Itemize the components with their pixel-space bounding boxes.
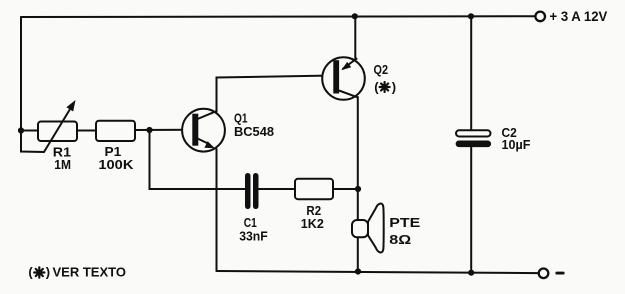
resistor R2 (box) [295,179,333,199]
terminal +V [535,12,545,22]
wire C2 branch bottom [470,147,472,272]
svg-text:+ 3 A 12V: + 3 A 12V [550,9,609,24]
transistor Q1 BC548 (NPN) [182,109,225,152]
wire speaker to bottom rail [357,237,359,272]
wire feedback node to C1 [150,130,246,189]
junction node speaker / bottom rail [355,268,361,274]
svg-text:1K2: 1K2 [301,216,324,231]
wire P1 to Q1 base [135,129,193,131]
wire R2 to Q2 collector [333,188,358,190]
wire R1 to P1 [77,130,96,132]
junction node C2 / bottom rail [468,270,474,276]
potentiometer P1 (box) [96,121,135,141]
wire Q1 collector to Q2 base [217,76,334,112]
svg-text:VER TEXTO: VER TEXTO [53,264,127,279]
svg-text:PTE: PTE [389,215,420,230]
svg-text:Q2: Q2 [374,62,389,77]
junction node P1 / Q1 base / feedback [146,127,152,133]
note (*) [374,79,396,94]
svg-text:(: ( [28,264,33,279]
wire Q2 collector down [357,97,359,221]
note (*) VER TEXTO [28,264,126,279]
svg-text:1M: 1M [54,157,71,172]
wire Q1 emitter to bottom rail [216,149,218,271]
svg-text:): ) [392,79,396,94]
terminal minus [539,269,549,279]
capacitor C2 (electrolytic) [456,130,492,147]
wire top rail [21,15,535,18]
svg-text:BC548: BC548 [234,124,274,139]
svg-text:33nF: 33nF [239,229,268,244]
speaker PTE [352,204,384,253]
wire C2 branch top [470,16,472,130]
svg-text:100K: 100K [98,157,134,172]
wire Q2 emitter to top rail [354,16,356,59]
svg-text:10µF: 10µF [502,137,531,152]
junction node top rail / Q2 emitter [352,13,358,19]
svg-text:8Ω: 8Ω [389,232,411,247]
wire left rail [21,17,44,152]
wire C1 to R2 [259,188,296,190]
wire left rail to R1 [21,130,38,132]
resistor R1 (variable, box with arrow) [38,100,77,152]
label minus [555,272,564,275]
wire bottom rail [217,271,539,273]
junction node left rail / R1 [18,127,24,133]
svg-text:(: ( [374,79,379,94]
svg-text:): ) [46,264,50,279]
transistor Q2 (PNP) [322,57,365,100]
junction node top rail / C2 [468,13,474,19]
junction node R2 / Q2 collector [355,186,361,192]
capacitor C1 (two plates) [245,173,259,209]
